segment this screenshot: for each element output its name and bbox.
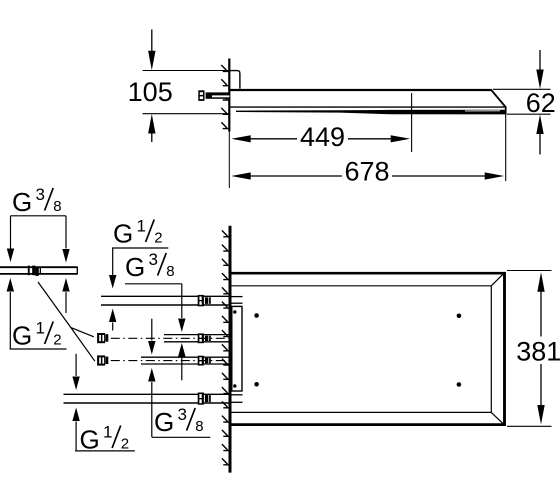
label G 1/2 arrow down <box>112 248 114 275</box>
dimension 62 extension line bottom <box>507 113 551 115</box>
label G 3/8 (bottom) arrow down <box>151 319 153 341</box>
svg-text:2: 2 <box>154 230 162 247</box>
dimension 678 extension line right <box>505 115 507 181</box>
svg-text:3: 3 <box>178 405 187 424</box>
dimension 449 line <box>237 138 297 140</box>
dimension 105 arrow top <box>151 30 153 61</box>
shower head inner bottom edge (plan) <box>231 411 491 413</box>
shower head outer top edge (plan) <box>231 272 506 275</box>
shower head outer bottom edge (plan) <box>231 423 506 426</box>
svg-text:8: 8 <box>195 418 203 435</box>
svg-text:3: 3 <box>149 250 158 269</box>
leader line to middle fittings <box>38 282 95 361</box>
label G 1/2 (bottom) arrow up <box>72 408 79 422</box>
svg-text:G: G <box>12 187 32 217</box>
dimension 62 extension line top <box>493 88 551 90</box>
dimension 449 arrows <box>231 135 251 142</box>
pipe P1 <box>101 295 229 297</box>
dimension 62 arrow bottom <box>536 115 543 135</box>
svg-text:105: 105 <box>128 77 173 107</box>
fitting on pipe P4 <box>198 393 204 405</box>
dimension 105 extension line top <box>143 70 230 72</box>
dimension 381 arrow top <box>537 272 544 292</box>
pipe P2 centerline <box>111 337 229 339</box>
label G 3/8 (bottom) underline <box>152 436 210 438</box>
fitting on pipe P3 (left end) <box>97 355 105 365</box>
pipe P2 <box>164 334 229 336</box>
wall (side view, cut edge) <box>228 59 230 132</box>
pipe P3 centerline <box>111 360 229 362</box>
svg-text:G: G <box>80 425 100 455</box>
pipe stub lower (behind wall) <box>231 394 243 396</box>
union nut fitting (top left) <box>28 266 30 276</box>
pipe P4 <box>64 393 230 395</box>
fitting on pipe P1 <box>198 295 204 306</box>
label G 3/8 (bottom) arrow up <box>148 368 155 382</box>
svg-text:1: 1 <box>36 319 45 338</box>
fitting on pipe P2 (left end) <box>97 333 105 343</box>
union nut fitting and supply pipe (side view) <box>206 92 230 98</box>
label G 3/8 (second) arrow up <box>178 343 185 357</box>
svg-text:8: 8 <box>166 263 174 280</box>
label G 1/2 underline <box>112 247 168 249</box>
dimension 678 line <box>237 175 342 177</box>
svg-text:678: 678 <box>344 156 389 186</box>
svg-text:8: 8 <box>53 198 61 215</box>
svg-text:G: G <box>125 252 145 282</box>
dimension 62 arrow top <box>539 50 541 78</box>
pipe P3 <box>141 356 229 358</box>
dimension 105 arrow bottom <box>148 114 155 134</box>
svg-text:449: 449 <box>300 122 345 152</box>
svg-text:2: 2 <box>53 332 61 349</box>
dimension 678 arrows <box>231 172 251 179</box>
svg-text:62: 62 <box>526 88 556 118</box>
mounting plate (plan) <box>232 306 242 391</box>
label G 1/2 box <box>9 292 11 349</box>
wall surface extension line (side view) <box>228 132 230 189</box>
shower head top edge (side view) <box>230 89 492 91</box>
svg-text:G: G <box>12 321 32 351</box>
dimension 381 arrow bottom <box>540 364 542 411</box>
spray nozzle dots <box>254 313 259 318</box>
shower head right bevel edge <box>491 89 506 107</box>
shower head inner top edge (plan) <box>231 285 491 287</box>
dimension 381 extension line bottom <box>507 425 552 427</box>
label G 1/2 (bottom) underline <box>75 450 135 452</box>
fitting on pipe P2 (near wall) <box>198 333 204 343</box>
svg-text:381: 381 <box>516 337 560 367</box>
mounting plate screws <box>233 310 236 313</box>
shower head inner right edge (plan) <box>490 286 492 413</box>
pipe stub upper (behind wall) <box>231 296 243 298</box>
label G 3/8 underline <box>11 215 67 217</box>
bevel miter top right <box>491 273 504 286</box>
svg-text:1: 1 <box>103 423 112 442</box>
bevel miter bottom right <box>491 412 504 424</box>
shower head outer right edge (plan) <box>503 272 506 426</box>
dimension 381 extension line top <box>507 270 552 272</box>
wall hatching (plan view) <box>222 230 229 236</box>
wall (plan view, cut edge) <box>229 226 232 473</box>
label G 1/2 arrow up <box>109 309 116 323</box>
svg-text:1: 1 <box>137 217 146 236</box>
exploded pipe (top left) <box>0 266 78 268</box>
svg-text:2: 2 <box>121 436 129 453</box>
label G 3/8 lower arrows <box>7 278 14 292</box>
dimension 449 extension line <box>411 93 413 152</box>
svg-text:G: G <box>154 407 174 437</box>
shower head right end edge <box>505 107 507 115</box>
wall hatching (side view) <box>221 65 228 71</box>
fitting on pipe P3 (near wall) <box>198 356 204 366</box>
mounting bracket (side view) <box>230 71 240 89</box>
svg-text:G: G <box>113 219 133 249</box>
label G 3/8 right arrow <box>65 216 67 249</box>
shower head bottom edge (side view) <box>230 106 506 108</box>
svg-text:3: 3 <box>36 185 45 204</box>
label G 3/8 (second) underline <box>125 283 182 285</box>
shower spray plate (dark wedge) <box>236 110 506 115</box>
label G 3/8 (second) arrow down <box>181 284 183 318</box>
label G 3/8 left arrow <box>10 216 12 249</box>
dimension 105 extension line bottom <box>143 113 230 115</box>
label G 1/2 (bottom) arrow down <box>75 354 77 376</box>
